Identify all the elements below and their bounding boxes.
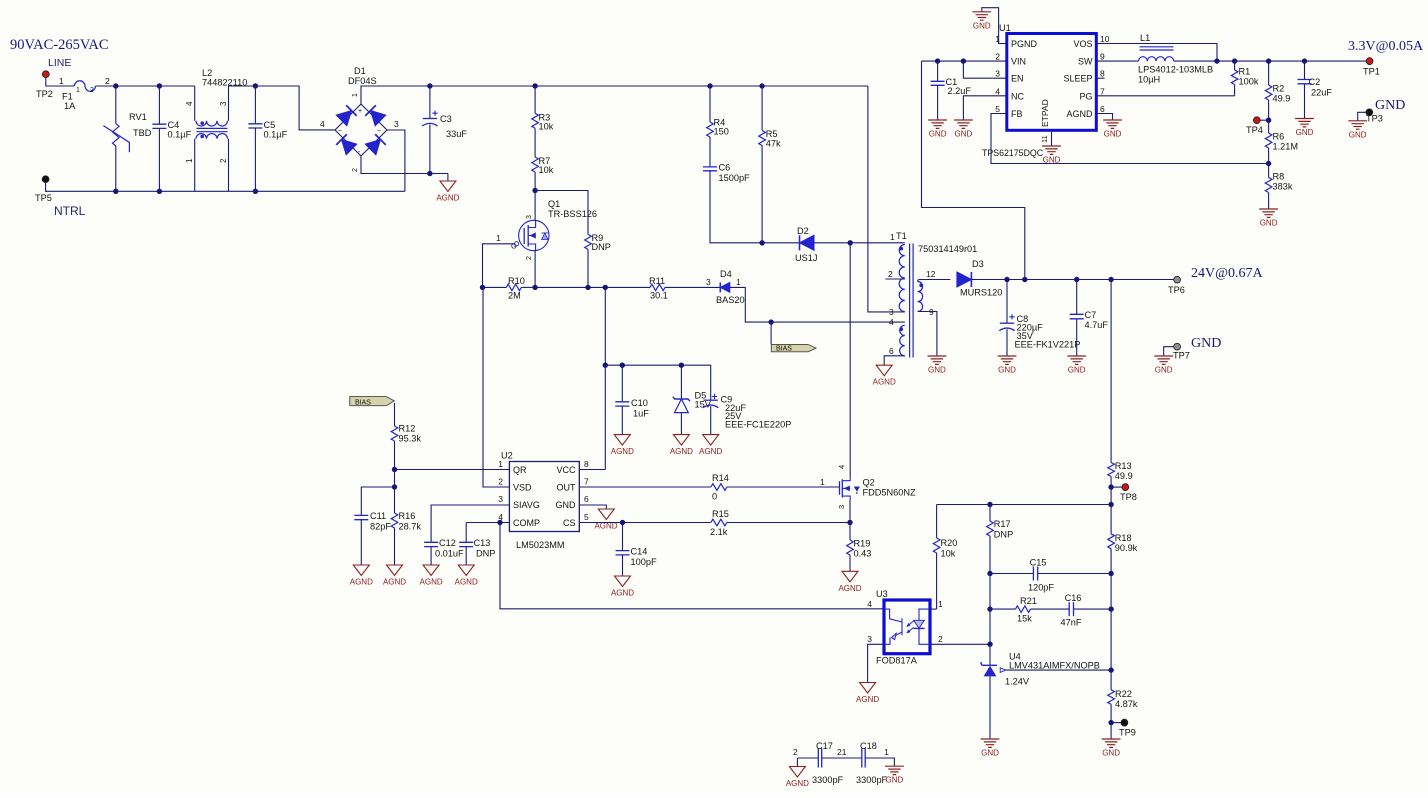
junction clamp node	[759, 240, 764, 245]
vertical to opto pin2 line	[989, 609, 991, 644]
svg-text:4: 4	[995, 86, 1000, 96]
L2 pin3 lead	[228, 86, 230, 121]
TP7 to GND	[1164, 347, 1174, 356]
svg-text:2.2uF: 2.2uF	[948, 86, 972, 96]
svg-text:R15: R15	[712, 509, 729, 519]
junction VOS	[1214, 58, 1219, 63]
TP9 lead	[1111, 722, 1121, 724]
R12 bottom lead	[394, 441, 396, 470]
junction R1 top	[1232, 58, 1237, 63]
svg-text:2: 2	[498, 477, 503, 487]
ground AGND C12	[420, 565, 443, 587]
junction C4 bottom	[157, 189, 162, 194]
svg-text:TP8: TP8	[1120, 492, 1137, 502]
svg-text:LMV431AIMFX/NOPB: LMV431AIMFX/NOPB	[1009, 660, 1100, 670]
resistor R11 30.1	[649, 276, 720, 301]
svg-text:4.7uF: 4.7uF	[1085, 320, 1109, 330]
svg-text:R12: R12	[399, 424, 416, 434]
varistor RV1	[103, 86, 151, 191]
capacitor C15 120pF	[990, 558, 1111, 593]
wire clamp to D2	[762, 242, 799, 244]
wire to R9	[535, 191, 588, 235]
T1 aux winding pins 4-6	[900, 325, 905, 356]
svg-text:1: 1	[820, 477, 825, 487]
junction gate/R10/VSD	[480, 285, 485, 290]
svg-text:TBD: TBD	[133, 128, 152, 138]
svg-text:C2: C2	[1309, 77, 1321, 87]
resistor R3 10k	[532, 86, 554, 132]
svg-text:1: 1	[890, 232, 895, 242]
svg-text:GND: GND	[1191, 336, 1221, 351]
C6 bottom to clamp node	[710, 171, 762, 243]
svg-text:C12: C12	[439, 538, 456, 548]
D4 to T1 pin4 / bias node	[730, 287, 905, 322]
svg-text:10k: 10k	[539, 122, 554, 132]
R17-R21 vertical	[989, 574, 991, 610]
svg-text:VSD: VSD	[513, 483, 532, 493]
R12 top lead	[394, 403, 396, 426]
svg-text:150: 150	[714, 127, 729, 137]
svg-text:+: +	[358, 108, 362, 115]
svg-text:NTRL: NTRL	[54, 204, 86, 218]
svg-text:SW: SW	[1078, 57, 1093, 67]
R6 bottom lead	[1268, 148, 1270, 164]
C17 left wire	[797, 757, 818, 759]
svg-text:CS: CS	[563, 518, 576, 528]
transformer T1 750314149r01	[885, 231, 977, 358]
NC to GND	[963, 96, 1006, 120]
C16 right lead	[1074, 608, 1112, 610]
junction C16/R18	[1108, 606, 1113, 611]
svg-text:GND: GND	[1155, 366, 1173, 375]
R3-R7 wire	[534, 128, 536, 157]
svg-text:ETPAD: ETPAD	[1040, 99, 1050, 127]
VIN wire	[922, 60, 1007, 62]
ground AGND C17	[786, 767, 809, 789]
capacitor C12 0.01uF	[424, 538, 464, 565]
test point TP8	[1122, 484, 1129, 491]
ground GND C18	[885, 766, 904, 785]
svg-text:C16: C16	[1065, 593, 1082, 603]
svg-text:GND: GND	[1043, 156, 1061, 165]
svg-text:TP6: TP6	[1168, 285, 1185, 295]
ground AGND C10	[611, 435, 634, 457]
diode D4 BAS20	[716, 269, 745, 305]
COMP to opto collector	[500, 523, 884, 609]
svg-text:R6: R6	[1273, 132, 1285, 142]
svg-text:22uF: 22uF	[1311, 88, 1332, 98]
R4 top lead	[709, 86, 711, 122]
svg-text:TP4: TP4	[1246, 125, 1263, 135]
resistor R5 47k	[759, 86, 781, 243]
D5 bottom lead	[680, 413, 682, 435]
svg-text:3300pF: 3300pF	[812, 775, 844, 785]
op-amp U2 LM5023MM body	[501, 451, 579, 532]
ground AGND T1 pin6	[873, 365, 896, 387]
inductor L1 LPS4012-103MLB	[1138, 33, 1213, 85]
capacitor C6 1500pF	[703, 163, 762, 243]
svg-text:3: 3	[706, 277, 711, 287]
C9 bottom lead	[710, 406, 712, 434]
U4 ref to divider	[1006, 669, 1112, 671]
svg-text:R22: R22	[1115, 689, 1132, 699]
junction EN/VIN	[961, 58, 966, 63]
R9 bottom lead	[587, 249, 589, 287]
T1 core	[910, 244, 914, 358]
svg-text:1: 1	[59, 76, 64, 86]
test point TP1	[1366, 58, 1373, 65]
transistor Q1 TR-BSS126	[511, 191, 597, 288]
svg-text:1: 1	[736, 277, 741, 287]
svg-text:3.3V@0.05A: 3.3V@0.05A	[1348, 39, 1424, 54]
junction Q1 source	[532, 285, 537, 290]
svg-text:VOS: VOS	[1073, 39, 1092, 49]
svg-text:AGND: AGND	[670, 447, 693, 456]
svg-text:SIAVG: SIAVG	[513, 500, 540, 510]
svg-text:RV1: RV1	[129, 112, 147, 122]
junction C5 bottom	[253, 189, 258, 194]
ground AGND C11	[350, 565, 373, 587]
VCC pin wire	[579, 469, 605, 471]
svg-text:AGND: AGND	[611, 589, 634, 598]
svg-text:5: 5	[584, 512, 589, 522]
svg-text:AGND: AGND	[838, 584, 861, 593]
svg-text:Q2: Q2	[863, 478, 875, 488]
svg-text:1: 1	[884, 747, 889, 757]
junction RV1 bottom	[113, 189, 118, 194]
capacitor C10 1uF	[615, 365, 649, 434]
junction R2 top	[1266, 58, 1271, 63]
junction R22/TP9	[1108, 720, 1113, 725]
bridge pin3 to neutral	[387, 130, 405, 191]
svg-text:2: 2	[352, 168, 359, 172]
svg-text:6: 6	[889, 346, 894, 356]
junction FB node	[1266, 161, 1271, 166]
svg-text:90VAC-265VAC: 90VAC-265VAC	[10, 37, 109, 53]
junction LINE/RV1	[113, 83, 118, 88]
resistor R21 15k	[990, 596, 1069, 624]
svg-text:QR: QR	[513, 465, 527, 475]
R12-R16 vertical	[394, 470, 396, 514]
svg-text:VIN: VIN	[1011, 57, 1026, 67]
resistor R20 10k	[933, 505, 957, 610]
svg-text:F1: F1	[62, 92, 73, 102]
ground GND U1 AGND	[1103, 120, 1122, 139]
R22 top lead	[1110, 670, 1112, 690]
svg-text:D3: D3	[972, 259, 984, 269]
C3 top lead	[429, 86, 431, 118]
svg-text:R11: R11	[649, 276, 665, 286]
D5 top lead	[680, 365, 682, 399]
capacitor C3 33uF	[422, 86, 467, 174]
svg-text:C6: C6	[719, 163, 731, 173]
R15 to Q2 source	[727, 522, 850, 524]
ground GND C8	[998, 356, 1017, 375]
junction C11 tee	[392, 484, 397, 489]
svg-text:TP7: TP7	[1173, 351, 1190, 361]
junction C10	[620, 363, 625, 368]
ground GND TP3	[1348, 121, 1367, 140]
svg-text:47nF: 47nF	[1061, 618, 1082, 628]
svg-text:G: G	[511, 242, 517, 251]
junction C15 line	[987, 571, 992, 576]
svg-text:TP1: TP1	[1363, 67, 1380, 77]
svg-text:100pF: 100pF	[631, 557, 657, 567]
svg-text:2.1k: 2.1k	[710, 527, 728, 537]
ground AGND D5	[670, 435, 693, 457]
R2 bottom lead	[1268, 100, 1270, 120]
junction CS/R19	[847, 520, 852, 525]
svg-text:2: 2	[105, 76, 110, 86]
ground AGND opto	[856, 683, 879, 705]
junction BIAS flag	[768, 319, 773, 324]
junction C15/R18	[1108, 571, 1113, 576]
svg-text:LPS4012-103MLB: LPS4012-103MLB	[1138, 65, 1213, 75]
3.3V output rail	[1174, 60, 1367, 62]
svg-text:C15: C15	[1030, 558, 1047, 568]
svg-text:AGND: AGND	[786, 779, 809, 788]
svg-text:2: 2	[526, 256, 533, 260]
svg-text:3: 3	[498, 494, 503, 504]
GND pin to AGND	[579, 505, 606, 509]
capacitor C18 3300pF	[856, 741, 888, 785]
svg-text:2: 2	[219, 158, 228, 163]
svg-text:R5: R5	[766, 129, 778, 139]
svg-text:0.1µF: 0.1µF	[264, 130, 288, 140]
svg-text:NC: NC	[1011, 91, 1024, 101]
R5 top lead	[761, 86, 763, 131]
L2 pin2 lead	[228, 139, 230, 192]
ground AGND U2 GND	[594, 509, 617, 531]
opto-coupler U3 FOD817A	[876, 589, 930, 654]
AGND pin to GND	[1096, 114, 1112, 121]
opto pin1 to R20	[930, 608, 937, 610]
test point TP2	[42, 71, 49, 78]
C12 bottom lead	[430, 547, 432, 565]
svg-text:8: 8	[1100, 69, 1105, 79]
ground GND C1	[928, 120, 947, 139]
opto pin3 to AGND	[868, 644, 884, 682]
junction LINE/C4	[157, 83, 162, 88]
capacitor C4	[152, 86, 191, 191]
svg-text:AGND: AGND	[856, 695, 879, 704]
svg-text:TR-BSS126: TR-BSS126	[548, 209, 597, 219]
R8 bottom lead	[1268, 193, 1270, 210]
Q1 drain lead	[534, 191, 536, 222]
bulk+ to T1 pin3	[868, 86, 905, 312]
svg-text:3: 3	[394, 119, 399, 129]
svg-text:GND: GND	[929, 130, 947, 139]
svg-text:MURS120: MURS120	[960, 288, 1002, 298]
svg-text:33uF: 33uF	[446, 129, 467, 139]
svg-text:SLEEP: SLEEP	[1063, 74, 1092, 84]
R17 top lead	[989, 505, 991, 522]
C8 bottom lead	[1006, 329, 1008, 356]
L2 pin1 lead	[194, 139, 196, 192]
fuse F1	[75, 81, 96, 92]
junction C3 top	[427, 83, 432, 88]
svg-text:1: 1	[498, 459, 503, 469]
junction COMP	[497, 520, 502, 525]
svg-text:1.21M: 1.21M	[1273, 142, 1299, 152]
svg-text:4: 4	[867, 599, 872, 609]
divider wire	[1110, 574, 1112, 610]
C1 bottom lead	[937, 85, 939, 120]
svg-text:7: 7	[1100, 86, 1105, 96]
svg-text:D4: D4	[720, 269, 732, 279]
capacitor C17 3300pF	[812, 741, 844, 785]
svg-text:R1: R1	[1239, 67, 1251, 77]
svg-text:R17: R17	[994, 519, 1011, 529]
test point TP9	[1121, 719, 1128, 726]
svg-text:2: 2	[793, 747, 798, 757]
R20 bottom lead to opto pin1	[936, 553, 938, 609]
VCC vertical	[604, 287, 606, 469]
svg-text:AGND: AGND	[1066, 109, 1093, 119]
VOS to output	[1096, 44, 1217, 62]
R17 bottom lead	[989, 536, 991, 574]
BIAS flag lead	[770, 322, 772, 344]
junction R7/Q1 drain/R9	[532, 188, 537, 193]
R19 top lead	[849, 523, 851, 541]
svg-text:FB: FB	[1011, 109, 1023, 119]
svg-text:R13: R13	[1115, 461, 1132, 471]
R2 top lead	[1268, 61, 1270, 85]
junction R21 line	[987, 606, 992, 611]
R18 top lead	[1110, 505, 1112, 534]
svg-text:3: 3	[995, 69, 1000, 79]
resistor R22 4.87k	[1108, 670, 1138, 723]
svg-text:47k: 47k	[766, 139, 781, 149]
resistor R13 49.9	[1108, 280, 1133, 488]
svg-text:FOD817A: FOD817A	[876, 656, 918, 666]
svg-text:10: 10	[1100, 34, 1110, 44]
DC+ rail from bridge	[361, 86, 868, 104]
bridge negative to AGND	[361, 156, 448, 174]
svg-text:28.7k: 28.7k	[399, 522, 422, 532]
C1 top lead	[937, 61, 939, 81]
CS wire	[579, 522, 711, 524]
svg-text:3: 3	[867, 634, 872, 644]
junction D5	[679, 363, 684, 368]
svg-text:AGND: AGND	[350, 578, 373, 587]
svg-text:BAS20: BAS20	[716, 295, 745, 305]
junction TP4/R6	[1266, 118, 1271, 123]
resistor R6 1.21M	[1265, 120, 1298, 163]
svg-text:R14: R14	[712, 473, 729, 483]
U4 anode to GND	[989, 676, 991, 739]
svg-text:TP2: TP2	[36, 89, 53, 99]
PGND to GND	[982, 8, 1007, 44]
C15 right lead	[1038, 573, 1111, 575]
common-mode choke L2 744822110	[185, 68, 247, 191]
OUT wire	[579, 486, 711, 488]
svg-text:1: 1	[352, 93, 359, 97]
svg-text:GND: GND	[1260, 219, 1278, 228]
svg-text:TP9: TP9	[1119, 728, 1136, 738]
svg-text:15k: 15k	[1017, 614, 1032, 624]
C5 bottom lead	[254, 128, 256, 191]
TP8 lead	[1111, 486, 1122, 488]
R1 bottom lead	[1234, 85, 1236, 96]
junction VCC node	[603, 285, 608, 290]
svg-text:Q1: Q1	[548, 199, 560, 209]
svg-text:U3: U3	[876, 589, 888, 599]
R22 bottom lead	[1110, 704, 1112, 722]
svg-text:GND: GND	[955, 130, 973, 139]
R7 bottom lead	[534, 172, 536, 191]
svg-text:LM5023MM: LM5023MM	[516, 540, 565, 550]
COMP wire	[466, 522, 509, 524]
svg-text:6: 6	[584, 494, 589, 504]
svg-text:30.1: 30.1	[650, 291, 668, 301]
svg-text:R18: R18	[1115, 533, 1132, 543]
svg-text:2: 2	[90, 87, 94, 94]
SIAVG to C12	[431, 505, 509, 542]
C5 top lead	[254, 86, 256, 124]
svg-text:R19: R19	[854, 539, 871, 549]
capacitor C2 22uF	[1298, 61, 1333, 118]
svg-text:GND: GND	[1102, 749, 1120, 758]
ground GND T1 pin9	[928, 356, 947, 375]
svg-text:~: ~	[338, 128, 342, 135]
divider wire 2	[1110, 609, 1112, 670]
svg-text:C3: C3	[440, 114, 452, 124]
C7 top lead	[1076, 280, 1078, 315]
R1 top lead	[1234, 61, 1236, 70]
svg-text:PG: PG	[1079, 91, 1092, 101]
svg-text:1500pF: 1500pF	[719, 173, 751, 183]
svg-text:L2: L2	[202, 68, 212, 78]
C18 to GND	[865, 758, 894, 766]
svg-text:R16: R16	[399, 511, 416, 521]
svg-text:T1: T1	[896, 231, 907, 241]
svg-text:GND: GND	[556, 500, 577, 510]
C13 bottom lead	[465, 547, 467, 565]
svg-text:10µH: 10µH	[1138, 75, 1160, 85]
svg-text:C4: C4	[168, 120, 180, 130]
svg-text:1uF: 1uF	[633, 409, 649, 419]
wire L2 pin3 to bridge pin4	[229, 86, 335, 130]
C4 bottom lead	[158, 128, 160, 191]
R8 top lead	[1268, 164, 1270, 178]
shunt regulator U4 LMV431AIMFX/NOPB	[981, 644, 1100, 686]
svg-text:BIAS: BIAS	[355, 400, 371, 407]
svg-text:2: 2	[995, 52, 1000, 62]
svg-text:GND: GND	[981, 749, 999, 758]
resistor R18 90.9k	[1108, 505, 1138, 574]
test point TP3	[1366, 109, 1373, 116]
transistor Q2 FDD5N60NZ	[837, 465, 916, 509]
svg-text:R8: R8	[1273, 172, 1285, 182]
svg-text:2: 2	[888, 269, 893, 279]
C2 top lead	[1304, 61, 1306, 79]
svg-text:21: 21	[837, 747, 847, 757]
diode D3 MURS120	[957, 259, 1002, 298]
ground AGND C13	[455, 565, 478, 587]
svg-text:GND: GND	[1375, 98, 1405, 113]
capacitor C14 100pF	[616, 523, 657, 577]
svg-text:DF04S: DF04S	[348, 76, 377, 86]
resistor R2 49.9	[1265, 61, 1290, 120]
Q1 source lead	[534, 250, 536, 287]
capacitor C1 2.2uF	[931, 61, 972, 120]
svg-text:GND: GND	[1104, 130, 1122, 139]
junction R13	[1108, 277, 1113, 282]
junction T1 pin1 / Q2 drain	[848, 240, 853, 245]
PG wire	[1096, 95, 1234, 97]
svg-text:10k: 10k	[941, 549, 956, 559]
